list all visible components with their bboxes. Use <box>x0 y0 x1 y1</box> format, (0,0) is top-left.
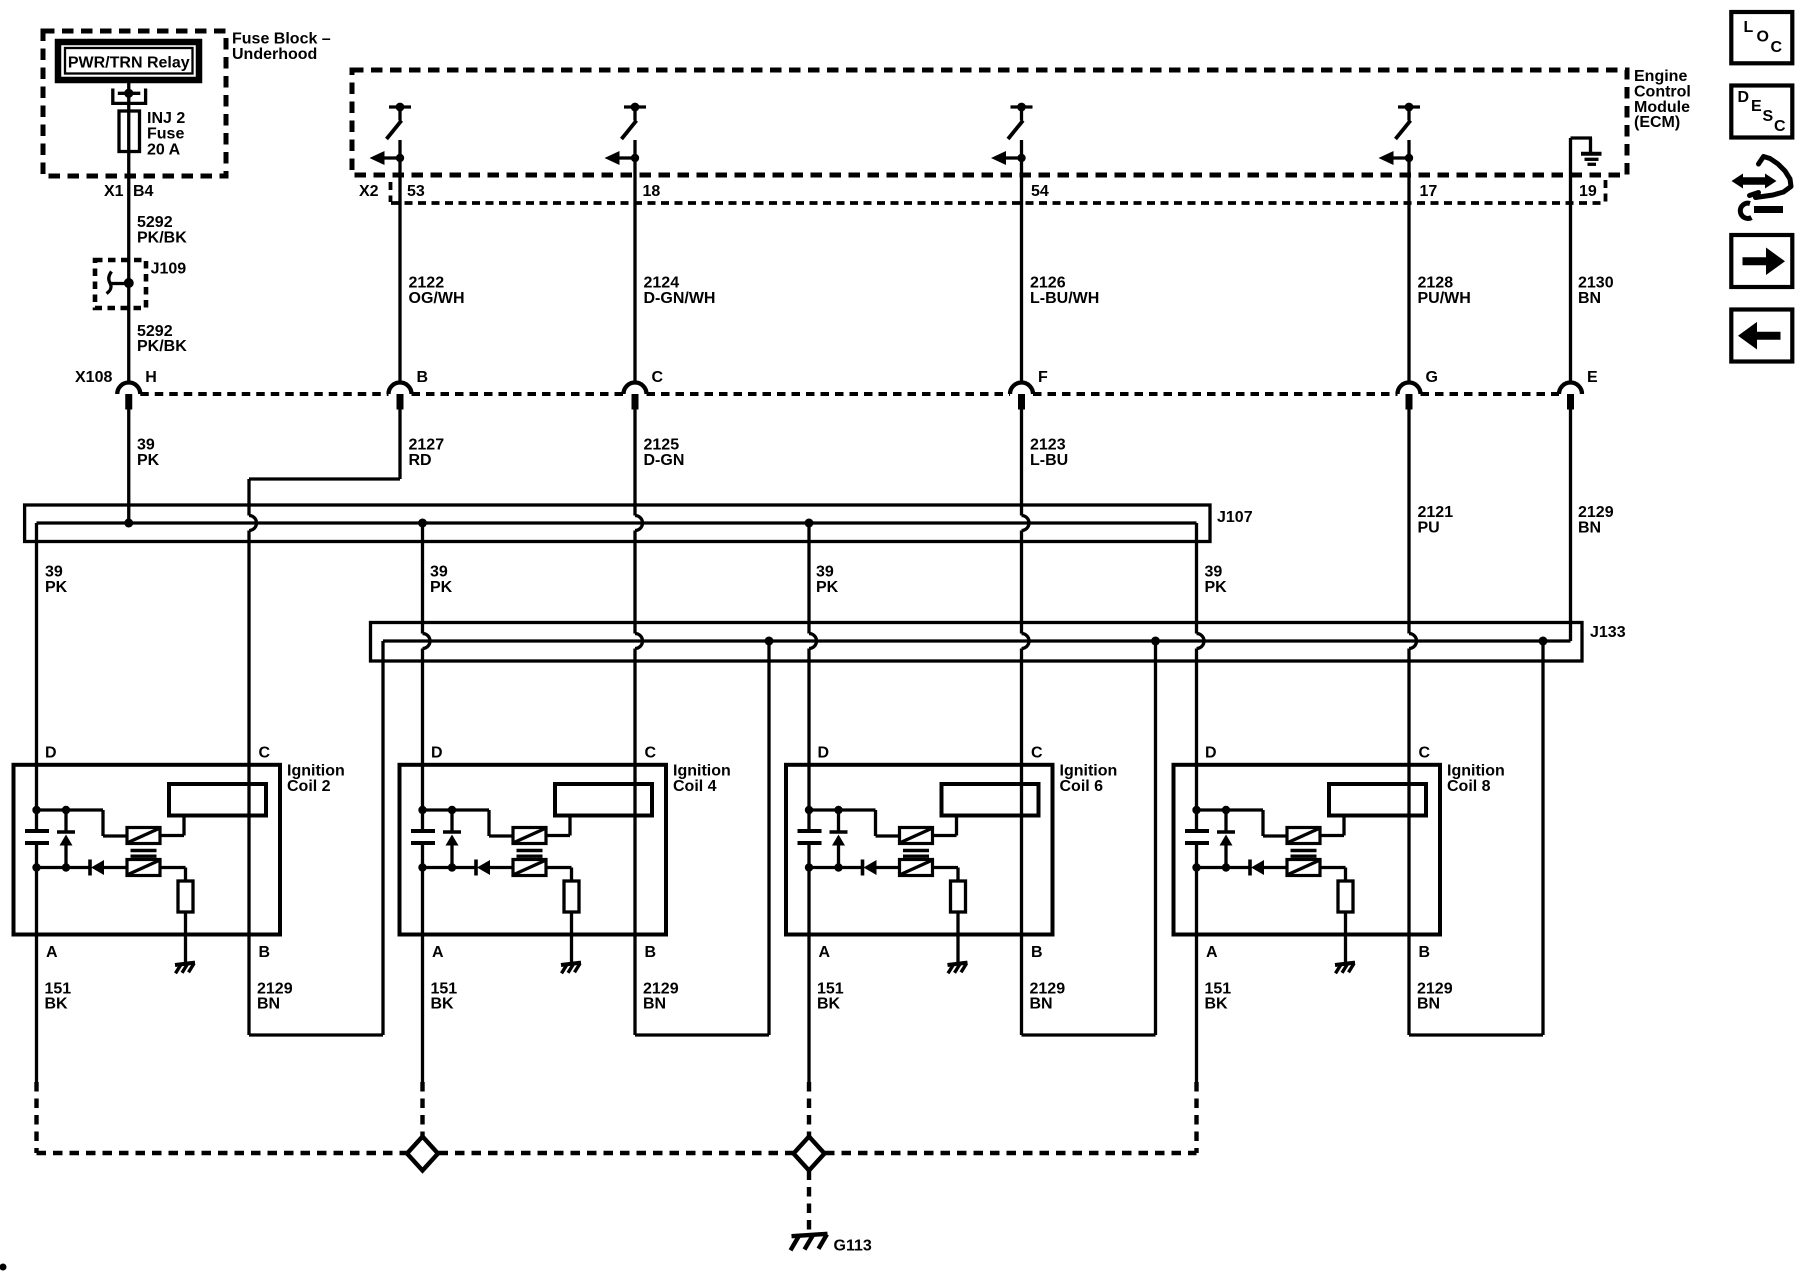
ground distribution dashed line <box>37 1151 407 1155</box>
wire 2124 D-GN/WH (pin 18 to X108-C) <box>633 205 636 383</box>
svg-text:20 A: 20 A <box>147 141 181 158</box>
wire 39 PK (J107 to coil 6 pin D) <box>807 523 810 634</box>
svg-text:BN: BN <box>257 996 280 1013</box>
primary winding (coil 4) <box>513 828 546 844</box>
zener diode (coil 8) <box>1224 810 1227 832</box>
svg-text:BK: BK <box>1205 996 1229 1013</box>
connector X108 terminal C <box>624 383 647 394</box>
icon: LOC box <box>1731 12 1792 63</box>
svg-text:C: C <box>1771 39 1783 56</box>
wire: primary to coil tower (coil 4) <box>546 834 570 837</box>
node: J107 tap coil 4 <box>418 519 427 528</box>
node: coil 2 top-left junction <box>32 806 40 814</box>
node: coil 8 top-zener junction <box>1222 806 1230 814</box>
connector X108 terminal H <box>117 383 140 394</box>
svg-text:E: E <box>1587 369 1598 386</box>
node: J133 tap coil 6 <box>1151 637 1160 646</box>
svg-text:Ignition: Ignition <box>1447 763 1505 780</box>
wire: ECM pin to X2 connector (pin 18) <box>633 140 636 205</box>
core (coil 8) <box>1291 849 1317 852</box>
node: coil 8 bottom-zener junction <box>1222 863 1230 871</box>
wire: secondary to resistor (coil 8) <box>1320 866 1346 869</box>
wire: dashed drop to G113 <box>807 1171 811 1233</box>
zener diode (coil 2) <box>64 810 67 832</box>
wire: coil 4 pin D to pin A (internal left rail) <box>421 765 424 831</box>
splice J133 (bus outline) <box>371 623 1583 662</box>
node: coil 4 top-zener junction <box>448 806 456 814</box>
coil tower block (coil 2) <box>169 784 266 816</box>
wire 2129 BN riser into J133 (coil 2) <box>381 641 384 661</box>
mark (page artifact) <box>0 1264 7 1271</box>
wire 39 PK (J107 to coil 4 pin D) <box>421 523 424 634</box>
relay output contact bracket <box>113 89 146 104</box>
svg-text:Ignition: Ignition <box>1060 763 1118 780</box>
svg-text:C: C <box>1774 118 1786 135</box>
svg-text:C: C <box>652 369 664 386</box>
wire: coil 6 bottom rail <box>809 866 863 869</box>
chassis ground (coil 6) <box>948 963 968 965</box>
splice J107 (bus outline) <box>25 505 1210 542</box>
wire: coil 6 top rail <box>809 808 876 811</box>
svg-text:G113: G113 <box>834 1238 872 1255</box>
connector X2 row (dashed line) <box>391 201 1605 205</box>
wire 2123 L-BU (X108-F to coil 6 pin C) <box>1020 410 1023 516</box>
wire: coil 6 ground lead dashed drop <box>807 1082 811 1137</box>
capacitor (coil 2) <box>25 829 49 833</box>
connector X108 dashed line <box>140 392 388 396</box>
wire 2129 BN riser into J133 (coil 8) <box>1541 641 1544 661</box>
wire: coil 8 pin D to pin A (internal left rail) <box>1195 765 1198 831</box>
svg-text:PK: PK <box>430 579 453 596</box>
ECM driver output arrow (pin 17) <box>1393 156 1408 159</box>
svg-text:PK: PK <box>816 579 839 596</box>
svg-text:PWR/TRN Relay: PWR/TRN Relay <box>68 55 190 72</box>
wire: coil 2 top rail <box>37 808 104 811</box>
svg-text:(ECM): (ECM) <box>1634 114 1680 131</box>
svg-text:X108: X108 <box>75 369 112 386</box>
wire: ECM pin to X2 connector (pin 17) <box>1407 140 1410 205</box>
wire: resistor to case ground (coil 8) <box>1344 912 1347 963</box>
ECM driver output arrow (pin 54) <box>1006 156 1021 159</box>
node: coil 4 bottom-left junction <box>418 863 426 871</box>
wire 151 BK (coil 6 pin A down) <box>807 935 810 1083</box>
svg-text:B: B <box>1419 944 1431 961</box>
ECM output driver for pin 53 (switch symbol) <box>389 105 411 108</box>
svg-text:D: D <box>431 745 443 762</box>
wire 5292 PK/BK (lower segment) <box>127 308 130 383</box>
diode (coil 8) <box>1248 860 1252 876</box>
svg-text:X2: X2 <box>359 183 379 200</box>
svg-text:BK: BK <box>45 996 69 1013</box>
node: J133 tap coil 4 <box>765 637 774 646</box>
svg-text:C: C <box>259 745 271 762</box>
svg-text:D: D <box>1205 745 1217 762</box>
wire 2128 PU/WH (pin 17 to X108-G) <box>1407 205 1410 383</box>
ignition coil 4 (module box) <box>400 765 667 935</box>
ECM output driver for pin 18 (switch symbol) <box>624 105 646 108</box>
node: coil 2 bottom-zener junction <box>62 863 70 871</box>
svg-text:C: C <box>1031 745 1043 762</box>
diode (coil 6) <box>861 860 865 876</box>
wire: relay output to fuse <box>127 81 130 111</box>
node: coil 4 bottom-zener junction <box>448 863 456 871</box>
splice diamond (coil 6 ground / G113 tap) <box>794 1137 825 1171</box>
wire: coil 8 pin C through tower to pin B <box>1407 765 1410 935</box>
svg-text:B: B <box>1031 944 1043 961</box>
resistor (coil 4) <box>564 881 579 912</box>
svg-text:J107: J107 <box>1217 509 1253 526</box>
wire: coil 6 pin C through tower to pin B <box>1020 765 1023 935</box>
svg-text:H: H <box>145 369 157 386</box>
svg-text:PU/WH: PU/WH <box>1418 290 1471 307</box>
wire: coil 4 top rail <box>423 808 490 811</box>
wire: coil 8 ground lead dashed drop <box>1194 1082 1198 1153</box>
svg-text:A: A <box>46 944 58 961</box>
node: J107 tap coil 6 <box>805 519 814 528</box>
wire 2127 RD (X108-B to coil 2 pin C) <box>398 410 401 480</box>
svg-text:L: L <box>1744 19 1754 36</box>
node: splice J109 junction <box>124 278 134 288</box>
node: coil 8 top-left junction <box>1192 806 1200 814</box>
svg-text:PK: PK <box>1205 579 1228 596</box>
wire 2129 BN (coil 4 pin B loop to J133) <box>633 935 636 1036</box>
svg-text:D: D <box>45 745 57 762</box>
svg-text:Underhood: Underhood <box>232 46 317 63</box>
connector X108 terminal E <box>1559 383 1582 394</box>
wire: coil 6 pin D to pin A (internal left rail) <box>807 765 810 831</box>
wire 2129 BN riser into J133 (coil 6) <box>1154 641 1157 661</box>
svg-text:OG/WH: OG/WH <box>409 290 465 307</box>
svg-text:BN: BN <box>1030 996 1053 1013</box>
svg-text:53: 53 <box>407 183 425 200</box>
svg-text:PK: PK <box>45 579 68 596</box>
node: relay output terminal (dot+bar) <box>124 89 133 98</box>
svg-text:Ignition: Ignition <box>287 763 345 780</box>
wire 5292 PK/BK (upper segment) <box>127 215 130 260</box>
svg-text:Coil 8: Coil 8 <box>1447 778 1491 795</box>
wire 2121 PU (X108-G to coil 8 pin C) <box>1407 410 1410 634</box>
svg-text:B: B <box>417 369 429 386</box>
connector X108 terminal G <box>1398 383 1421 394</box>
svg-text:18: 18 <box>643 183 661 200</box>
ignition coil 8 (module box) <box>1174 765 1441 935</box>
svg-text:C: C <box>645 745 657 762</box>
node: J107 feed junction <box>124 519 133 528</box>
svg-text:A: A <box>1206 944 1218 961</box>
svg-text:PU: PU <box>1418 519 1440 536</box>
chassis ground (coil 4) <box>561 963 581 965</box>
splice diamond (coil 4 ground) <box>407 1137 438 1171</box>
wire: ECM pin 19 to X2 (2130 BN upper) <box>1569 138 1572 205</box>
svg-text:54: 54 <box>1031 183 1049 200</box>
Engine Control Module ECM (dashed enclosure) <box>352 70 1627 175</box>
node: coil 6 bottom-zener junction <box>834 863 842 871</box>
svg-text:L-BU: L-BU <box>1030 452 1068 469</box>
svg-text:D-GN/WH: D-GN/WH <box>644 290 716 307</box>
svg-text:D: D <box>1738 89 1750 106</box>
wire: primary to coil tower (coil 2) <box>160 834 184 837</box>
wire 39 PK (J107 to coil 8 pin D) <box>1195 523 1198 634</box>
svg-text:X1: X1 <box>104 183 124 200</box>
svg-text:BN: BN <box>1417 996 1440 1013</box>
wire: resistor to case ground (coil 2) <box>184 912 187 963</box>
resistor (coil 8) <box>1338 881 1353 912</box>
wire 2130 BN (pin 19 to X108-E) <box>1569 205 1572 383</box>
wire: primary to coil tower (coil 6) <box>933 834 957 837</box>
svg-text:B4: B4 <box>133 183 154 200</box>
capacitor (coil 6) <box>798 829 822 833</box>
wire: coil 4 ground lead dashed drop <box>420 1082 424 1137</box>
wire 151 BK (coil 8 pin A down) <box>1195 935 1198 1083</box>
secondary winding (coil 4) <box>513 860 546 876</box>
wire through J109 <box>127 260 130 308</box>
wire 151 BK (coil 4 pin A down) <box>421 935 424 1083</box>
zener diode (coil 6) <box>837 810 840 832</box>
svg-text:Coil 4: Coil 4 <box>673 778 717 795</box>
wire 2126 L-BU/WH (pin 54 to X108-F) <box>1020 205 1023 383</box>
capacitor (coil 8) <box>1185 829 1209 833</box>
secondary winding (coil 2) <box>127 860 160 876</box>
separator X2/53 <box>389 182 393 202</box>
secondary winding (coil 8) <box>1287 860 1320 876</box>
wire 2129 BN riser into J133 (coil 4) <box>767 641 770 661</box>
svg-text:INJ 2: INJ 2 <box>147 110 185 127</box>
wire: coil 4 pin C through tower to pin B <box>633 765 636 935</box>
wire: coil 2 pin C through tower to pin B <box>247 765 250 935</box>
svg-text:L-BU/WH: L-BU/WH <box>1030 290 1099 307</box>
ECM output driver for pin 54 (switch symbol) <box>1011 105 1033 108</box>
svg-text:BK: BK <box>817 996 841 1013</box>
fuse block - underhood (dashed enclosure) <box>43 31 226 176</box>
wire: resistor to case ground (coil 6) <box>956 912 959 963</box>
chassis ground (coil 2) <box>175 963 195 965</box>
ECM output driver for pin 17 (switch symbol) <box>1398 105 1420 108</box>
capacitor (coil 4) <box>411 829 435 833</box>
wire: coil 8 bottom rail <box>1197 866 1251 869</box>
wire 2129 BN (coil 2 pin B loop to J133) <box>247 935 250 1036</box>
svg-text:J133: J133 <box>1590 624 1626 641</box>
ignition coil 6 (module box) <box>786 765 1053 935</box>
splice J133 internal bus line <box>383 639 1571 642</box>
diode (coil 2) <box>88 860 92 876</box>
icon: forward arrow box <box>1731 235 1792 287</box>
svg-text:J109: J109 <box>151 261 187 278</box>
svg-text:BN: BN <box>643 996 666 1013</box>
diode (coil 4) <box>474 860 478 876</box>
wire: coil 2 ground lead dashed drop <box>34 1082 38 1153</box>
coil tower block (coil 4) <box>555 784 652 816</box>
wire: coil 8 top rail <box>1197 808 1264 811</box>
svg-text:B: B <box>259 944 271 961</box>
zener diode (coil 4) <box>450 810 453 832</box>
coil tower block (coil 6) <box>942 784 1039 816</box>
wire: secondary to resistor (coil 2) <box>160 866 186 869</box>
wire: resistor to case ground (coil 4) <box>570 912 573 963</box>
node: coil 8 bottom-left junction <box>1192 863 1200 871</box>
wire: coil 4 bottom rail <box>423 866 477 869</box>
wire 39 PK (J107 to coil 2 pin D) <box>35 523 38 765</box>
primary winding (coil 8) <box>1287 828 1320 844</box>
svg-text:Coil 6: Coil 6 <box>1060 778 1104 795</box>
svg-text:D-GN: D-GN <box>644 452 685 469</box>
connector X108 terminal B <box>389 383 412 394</box>
svg-text:PK/BK: PK/BK <box>137 229 187 246</box>
svg-text:S: S <box>1763 108 1774 125</box>
svg-text:Ignition: Ignition <box>673 763 731 780</box>
core (coil 6) <box>903 849 929 852</box>
fuse F1 INJ 2 Fuse 20 A <box>119 111 140 152</box>
separator pin 19 <box>1604 180 1608 202</box>
wire: secondary to resistor (coil 4) <box>546 866 572 869</box>
svg-text:C: C <box>1419 745 1431 762</box>
svg-text:BN: BN <box>1578 519 1601 536</box>
core (coil 4) <box>517 849 543 852</box>
icon: DESC box <box>1731 86 1792 138</box>
svg-text:17: 17 <box>1420 183 1438 200</box>
connector X108 terminal F <box>1010 383 1033 394</box>
svg-text:F: F <box>1038 369 1048 386</box>
secondary winding (coil 6) <box>900 860 933 876</box>
svg-text:E: E <box>1751 98 1762 115</box>
wire 2122 OG/WH (pin 53 to X108-B) <box>398 205 401 383</box>
svg-text:A: A <box>432 944 444 961</box>
wire 151 BK (coil 2 pin A down) <box>35 935 38 1083</box>
wire 39 PK (X108-H to splice J107) <box>127 410 130 524</box>
primary winding (coil 6) <box>900 828 933 844</box>
wire 2129 BN (coil 6 pin B loop to J133) <box>1020 935 1023 1036</box>
svg-text:PK: PK <box>137 452 160 469</box>
svg-text:D: D <box>818 745 830 762</box>
core (coil 2) <box>131 849 157 852</box>
node: coil 6 bottom-left junction <box>805 863 813 871</box>
node: coil 2 bottom-left junction <box>32 863 40 871</box>
icon: double-arrow with wrench <box>1741 177 1767 185</box>
node: J133 tap coil 8 <box>1539 637 1548 646</box>
icon: back arrow box <box>1731 310 1792 362</box>
relay K1 PWR/TRN Relay (box) <box>58 42 199 80</box>
ECM internal ground (pin 19) <box>1571 136 1593 139</box>
resistor (coil 6) <box>951 881 966 912</box>
svg-text:BK: BK <box>431 996 455 1013</box>
svg-text:BN: BN <box>1578 290 1601 307</box>
svg-text:RD: RD <box>409 452 432 469</box>
wire 2129 BN (X108-E to splice J133) <box>1569 410 1572 642</box>
svg-text:PK/BK: PK/BK <box>137 338 187 355</box>
wire: ECM pin to X2 connector (pin 53) <box>398 140 401 205</box>
ECM driver output arrow (pin 53) <box>384 156 399 159</box>
wire: fuse to X1 connector <box>127 152 130 216</box>
node: coil 4 top-left junction <box>418 806 426 814</box>
svg-text:O: O <box>1757 29 1769 46</box>
svg-text:Fuse: Fuse <box>147 126 184 143</box>
wire: ECM pin to X2 connector (pin 54) <box>1020 140 1023 205</box>
wire 2125 D-GN (X108-C to coil 4 pin C) <box>633 410 636 516</box>
svg-text:Coil 2: Coil 2 <box>287 778 331 795</box>
node: coil 6 top-left junction <box>805 806 813 814</box>
chassis ground (coil 8) <box>1335 963 1355 965</box>
ignition coil 2 (module box) <box>14 765 281 935</box>
splice J109 (dashed box) <box>95 260 146 308</box>
svg-text:G: G <box>1426 369 1438 386</box>
svg-text:A: A <box>819 944 831 961</box>
wire: coil 2 pin D to pin A (internal left rail) <box>35 765 38 831</box>
svg-text:19: 19 <box>1579 183 1597 200</box>
wire: coil 2 bottom rail <box>37 866 91 869</box>
wire: secondary to resistor (coil 6) <box>933 866 959 869</box>
wire: primary to coil tower (coil 8) <box>1320 834 1344 837</box>
resistor (coil 2) <box>178 881 193 912</box>
svg-text:B: B <box>645 944 657 961</box>
node: coil 6 top-zener junction <box>834 806 842 814</box>
coil tower block (coil 8) <box>1329 784 1426 816</box>
ground G113 (chassis ground) <box>792 1234 828 1236</box>
node: coil 2 top-zener junction <box>62 806 70 814</box>
primary winding (coil 2) <box>127 828 160 844</box>
ECM driver output arrow (pin 18) <box>619 156 634 159</box>
splice J107 internal bus line <box>37 521 1197 524</box>
wire 2129 BN (coil 8 pin B loop to J133) <box>1407 935 1410 1036</box>
